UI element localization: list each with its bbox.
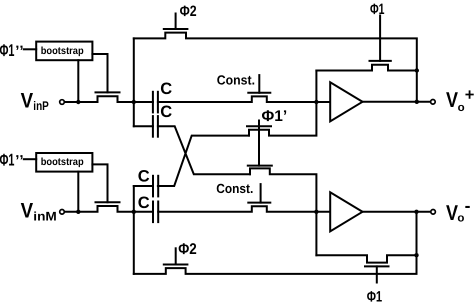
op-amp A1 [330, 82, 362, 121]
bootstrap block U2 [36, 153, 92, 172]
svg-text:V: V [21, 199, 33, 222]
capacitor C2 plates [153, 116, 158, 137]
svg-text:-: - [465, 195, 471, 215]
transistor Φ1' upper hump [249, 71, 316, 136]
junction dot bootstrap2/VinM [76, 210, 80, 214]
svg-text:Φ1: Φ1 [367, 289, 383, 305]
wire top loop with Φ2 hump [134, 33, 417, 102]
svg-text:inM: inM [33, 209, 57, 223]
capacitor C4 plates [153, 202, 158, 223]
wire bottom loop with Φ2 hump [134, 255, 417, 274]
svg-text:C: C [138, 167, 150, 185]
junction dot feedback/right rail bottom [414, 253, 418, 257]
junction dot output node top [415, 100, 419, 104]
wire C4 to Const2 to opamp2 [158, 206, 330, 212]
svg-text:C: C [138, 194, 150, 212]
svg-text:bootstrap: bootstrap [41, 157, 84, 168]
transistor Φ1' lower gate bar [248, 165, 272, 167]
transistor Const2 gate bar [248, 202, 270, 204]
transistor Φ2 top: gate bar [164, 28, 188, 30]
transistor Φ1 top gate lead [379, 16, 381, 61]
transistor Const1 gate bar [248, 92, 270, 94]
transistor Const2 gate lead [260, 184, 262, 203]
capacitor C3 plates [153, 176, 158, 197]
terminal VinP [60, 100, 65, 105]
svg-text:bootstrap: bootstrap [41, 46, 84, 57]
wire opamp1 output [362, 101, 430, 103]
svg-text:o: o [457, 213, 464, 225]
terminal Vo- [431, 210, 436, 215]
svg-text:C: C [160, 103, 172, 121]
transistor M1 gate bar [96, 91, 120, 93]
svg-text:Φ2: Φ2 [178, 241, 197, 258]
junction dot VinP node A [132, 100, 136, 104]
wire X cross from C3 to upper middle rail [158, 136, 249, 186]
capacitor C1 plates [153, 92, 158, 113]
junction dot VinM node B [132, 210, 136, 214]
label VinP [21, 90, 49, 114]
wire vertical node A (top loop / cap2 branch) [133, 38, 135, 126]
wire local feedback top (through Φ1 hump) [316, 65, 416, 71]
transistor Const1 gate lead [258, 75, 260, 93]
transistor Φ1' upper gate bar [247, 125, 271, 127]
junction dot output node bottom [414, 210, 418, 214]
wire bootstrap2 to gate of M2 [92, 164, 107, 202]
wire cap2 branch [134, 125, 153, 127]
bootstrap block U1 [36, 42, 92, 61]
junction dot opamp2 input [314, 210, 318, 214]
junction dot opamp1 input [314, 100, 318, 104]
svg-text:V: V [21, 90, 33, 113]
wire C2 to X cross to lower middle rail [158, 126, 250, 174]
svg-text:Φ1: Φ1 [0, 151, 15, 170]
transistor M2 gate bar [96, 201, 120, 203]
transistor Φ1 bottom gate lead [376, 266, 378, 282]
label Vo- [446, 195, 471, 225]
gate lead Φ1' shared vertical [258, 121, 260, 166]
op-amp A2 [330, 192, 362, 231]
svg-text:inP: inP [33, 99, 49, 113]
wire right rail bottom [416, 212, 418, 255]
svg-text:+: + [465, 86, 474, 104]
junction dot feedback/right rail top [415, 68, 419, 72]
svg-text:Φ2: Φ2 [180, 3, 197, 20]
transistor Φ1' lower hump [250, 168, 316, 255]
svg-text:’’: ’’ [15, 43, 24, 60]
svg-text:o: o [458, 102, 465, 114]
wire bootstrap1 to gate of M1 [92, 54, 107, 92]
wire Φ1'' to bootstrap2 [24, 158, 36, 160]
transistor Φ2 bottom gate lead [175, 248, 177, 264]
svg-text:Const.: Const. [216, 181, 253, 196]
svg-text:Φ1: Φ1 [0, 41, 15, 60]
wire vertical node B (bottom loop / cap3 branch) [133, 186, 135, 274]
svg-text:Φ1’: Φ1’ [262, 108, 288, 125]
label VinM [21, 199, 57, 223]
wire local feedback bottom (through Φ1 dip) [316, 255, 416, 262]
wire opamp2 output [362, 211, 430, 213]
wire C1 to Const1 to opamp1 [158, 96, 330, 102]
svg-text:Φ1: Φ1 [370, 1, 385, 18]
transistor Φ1 top gate bar [370, 60, 391, 62]
svg-text:Const.: Const. [217, 73, 255, 88]
transistor Φ1 bottom gate bar [365, 265, 389, 267]
svg-text:’’: ’’ [15, 153, 24, 170]
svg-text:C: C [160, 80, 172, 98]
transistor Φ2 bottom gate bar [164, 264, 188, 266]
terminal Vo+ [431, 100, 436, 105]
wire VinM main (through M2 hump) [65, 206, 153, 212]
wire cap3 branch [134, 185, 153, 187]
wire bootstrap1 output to VinP node [77, 60, 79, 102]
wire Φ1'' to bootstrap1 [24, 48, 36, 50]
label Vo+ [446, 86, 474, 114]
wire bootstrap2 output to VinM node [77, 172, 79, 212]
transistor Φ2 top: gate lead [175, 14, 177, 30]
wire VinP main (through M1 hump) [65, 96, 153, 102]
junction dot bootstrap1/VinP [76, 100, 80, 104]
terminal VinM [60, 210, 65, 215]
